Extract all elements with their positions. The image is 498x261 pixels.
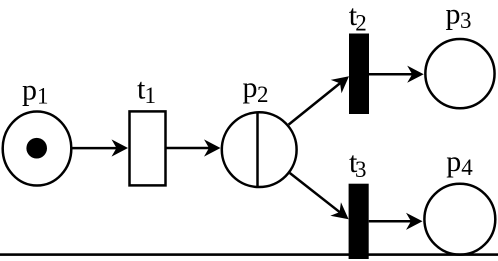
svg-text:p: p — [243, 71, 258, 104]
place p2 — [222, 112, 297, 187]
token in p1 — [26, 138, 47, 159]
internal vertical line of p2 — [256, 112, 259, 189]
svg-text:p: p — [446, 145, 461, 178]
arc t2 to p3 (wire) — [369, 73, 419, 76]
arc p2 to t2 (diagonal wire) — [289, 79, 346, 125]
arc p1 to t1 (wire) — [72, 147, 124, 150]
arc t1 to p2 (wire) — [167, 147, 217, 150]
svg-text:p: p — [446, 0, 461, 31]
svg-text:p: p — [22, 74, 37, 107]
svg-text:1: 1 — [37, 83, 49, 108]
place p3 — [425, 39, 494, 108]
svg-text:2: 2 — [257, 82, 269, 107]
arc p2 to t3 (diagonal wire) — [290, 173, 346, 217]
arc t3 to p4 (wire) — [369, 220, 418, 223]
transition t1 — [130, 111, 166, 185]
svg-text:3: 3 — [355, 157, 367, 182]
svg-text:3: 3 — [460, 8, 472, 33]
transition t3 (filled bar) — [349, 184, 369, 259]
place p4 — [424, 184, 495, 255]
transition t2 (filled bar) — [349, 34, 369, 115]
place p1 — [3, 112, 72, 186]
svg-text:1: 1 — [145, 83, 157, 108]
svg-text:2: 2 — [355, 10, 367, 35]
svg-text:4: 4 — [461, 155, 473, 180]
bottom horizontal rule — [0, 253, 498, 256]
